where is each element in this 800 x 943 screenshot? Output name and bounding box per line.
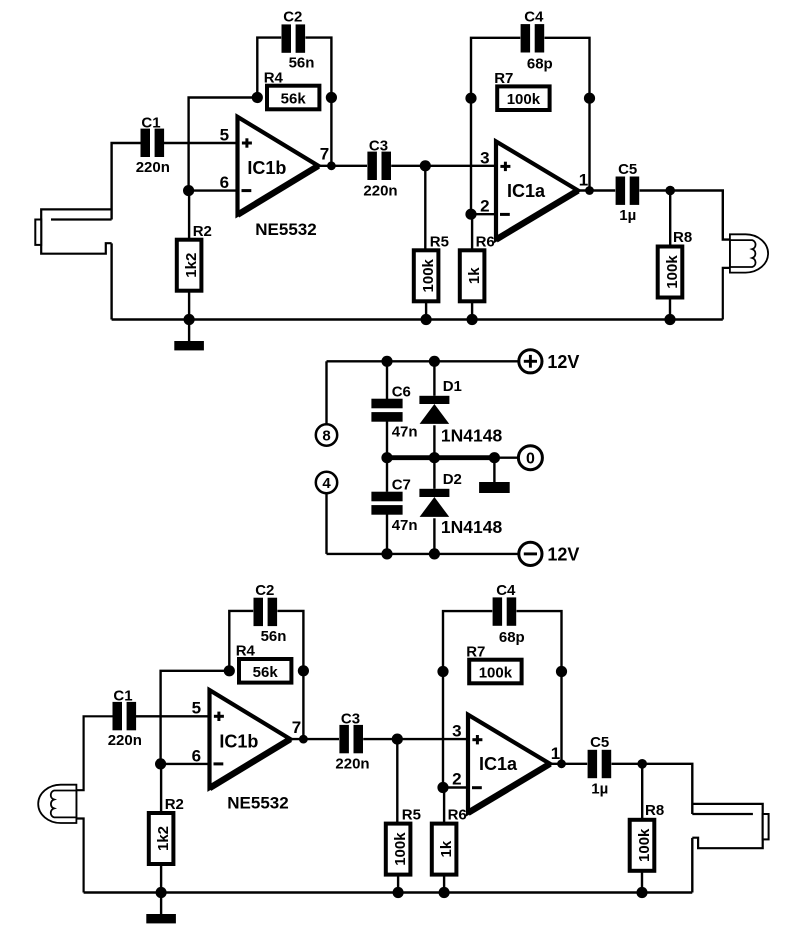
value 1N4148 of D2 [441,517,503,537]
wire R6 to ground rail (bottom) [443,875,445,893]
wire jack sleeve to ground rail (bottom) [691,838,693,893]
svg-text:7: 7 [292,718,301,737]
wire C2 loop right (bottom) [277,611,303,671]
pin 6 label IC1b (bottom) [192,746,201,765]
wire positive supply rail [327,360,519,362]
label C2 (bottom) [255,582,274,599]
ground symbol (top) [174,320,204,351]
wire ground rail (top) [112,318,723,320]
wire C5 to output node (bottom) [612,763,643,765]
svg-text:0: 0 [526,450,535,467]
wire C7 top lead [386,458,388,492]
svg-text:220n: 220n [363,182,397,199]
op-amp IC1b (top) [238,117,319,215]
label C1 (bottom) [113,688,132,705]
capacitor C4 (bottom) [493,597,517,625]
node junction R7 right (top) [584,93,595,104]
wire C2 loop left (top) [257,38,281,98]
label C3 (bottom) [341,711,360,728]
wire C4 loop right (top) [545,38,590,98]
wire C1 to IC1b pin5 (top) [164,142,238,144]
value 220n of C3 (bottom) [335,756,369,773]
node junction IC1a output (bottom) [557,759,566,768]
wire R7 right to IC1a output (top) [588,98,590,190]
label C4 (top) [524,9,544,26]
wire jack sleeve to ground rail (top) [110,243,112,319]
wire IC1a pin2 (top) [471,213,496,215]
wire C5 to output node (top) [640,189,671,191]
pin 5 label IC1b (bottom) [192,699,201,718]
wire zero volt rail (thick) [387,455,494,460]
wire IC1b pin6 (top) [189,189,238,191]
node junction ground stub [489,452,500,463]
ground symbol (bottom) [146,893,176,924]
label NE5532 (bottom) [227,793,288,812]
wire R8 to ground rail (top) [669,298,671,320]
wire R4 right to IC1b output (top) [330,98,332,166]
svg-text:R7: R7 [494,70,513,87]
svg-text:1: 1 [551,744,560,763]
wire C4 loop left (top) [471,38,520,98]
svg-text:D2: D2 [443,471,462,488]
svg-text:C2: C2 [255,582,274,599]
svg-text:1k: 1k [466,267,483,284]
terminal -12V [519,542,542,565]
wire zero rail to terminal [494,457,519,459]
wire R4 right to IC1b output (bottom) [302,671,304,739]
svg-text:C5: C5 [618,161,637,178]
pin 1 label IC1a (top) [579,171,588,190]
wire IC1b feedback vertical (top) [189,98,258,191]
svg-text:5: 5 [220,125,229,144]
wire R8 node down (bottom) [641,764,643,820]
wire C4 loop right (bottom) [517,611,562,671]
terminal 0V [518,446,542,470]
ground symbol (middle) [479,458,510,493]
capacitor C3 (bottom) [339,725,363,753]
node junction R8 bottom (top) [664,314,675,325]
wire transducer to ground rail (top) [723,268,730,320]
wire IC1b output to C3 (top) [318,165,367,167]
wire pin6 node to R2 (top) [188,191,190,240]
svg-text:R5: R5 [402,807,421,824]
svg-text:100k: 100k [392,832,409,866]
pin 2 label IC1a (bottom) [452,770,461,789]
svg-text:D1: D1 [443,378,462,395]
svg-text:100k: 100k [664,255,681,289]
resistor R4 (bottom) [239,659,291,683]
wire C2 loop left (bottom) [229,611,253,671]
input jack K (top channel) [35,209,111,253]
resistor R6 (top) [460,250,485,301]
wire IC1a pin2 (bottom) [443,786,468,788]
node junction IC1b output (bottom) [299,735,308,744]
label D1 [443,378,462,395]
label R6 (bottom) [448,807,467,824]
svg-text:3: 3 [452,722,461,741]
wire IC1a feedback vertical left (bottom) [442,672,444,788]
node junction R4 left (top) [252,92,263,103]
op-amp IC1b (bottom) [210,690,291,788]
node junction R4 right (bottom) [298,665,309,676]
svg-text:C1: C1 [113,688,132,705]
svg-text:1N4148: 1N4148 [441,517,503,537]
svg-text:C5: C5 [590,734,609,751]
value 1µ of C5 (bottom) [591,780,608,797]
value 1µ of C5 (top) [619,207,636,224]
svg-text:R6: R6 [448,807,467,824]
capacitor C4 (top) [521,24,545,52]
svg-text:R8: R8 [645,802,664,819]
wire C1 to IC1b pin5 (bottom) [136,715,210,717]
wire output node to transducer (top) [670,191,730,240]
svg-text:1µ: 1µ [591,780,608,797]
value 68p of C4 (bottom) [499,629,525,646]
svg-text:100k: 100k [507,91,541,108]
value 56n of C2 (top) [289,55,315,72]
resistor R5 (bottom) [386,824,411,875]
resistor R4 (top) [267,86,319,110]
svg-text:100k: 100k [420,258,437,292]
svg-text:4: 4 [322,475,331,492]
label D2 [443,471,462,488]
label R2 (bottom) [165,796,184,813]
wire R7 right to IC1a output (bottom) [560,672,562,764]
wire R8 to ground rail (bottom) [641,871,643,893]
capacitor C5 (top) [616,177,640,205]
capacitor C2 (bottom) [254,598,278,626]
svg-text:220n: 220n [136,159,170,176]
pin 1 label IC1a (bottom) [551,744,560,763]
wire C4 loop left (bottom) [443,611,492,671]
label C4 (bottom) [496,582,516,599]
wire R5 node down (bottom) [396,739,398,824]
resistor R7 (top) [497,86,549,110]
svg-text:5: 5 [192,699,201,718]
label C2 (top) [283,9,302,26]
wire ground rail (bottom) [84,891,693,893]
wire C6 bottom lead [386,421,388,457]
value 47n of C7 [392,517,418,534]
resistor R5 (top) [414,250,439,301]
diode D1 1N4148 [419,396,449,424]
node junction R8 top (top) [665,186,675,196]
node junction R7 right (bottom) [556,666,567,677]
value 47n of C6 [392,424,418,441]
node junction R6 bottom (bottom) [439,887,450,898]
node junction R5 bottom (bottom) [393,887,404,898]
wire IC1a feedback vertical left (top) [470,98,472,214]
diode D2 1N4148 [419,489,449,517]
pin 6 label IC1b (top) [220,173,229,192]
node junction at IC1b -input (bottom) [155,758,166,769]
node junction D1 top [429,356,440,367]
node junction R5 top (top) [420,160,431,171]
label C5 (bottom) [590,734,609,751]
svg-text:IC1a: IC1a [479,754,518,774]
node junction C7 bottom [381,548,392,559]
wire D2 top lead [433,458,435,489]
wire C6 top lead [386,361,388,399]
svg-text:R2: R2 [165,796,184,813]
wire IC1b output to C3 (bottom) [290,738,339,740]
svg-text:1k: 1k [438,840,455,857]
wire R2 to ground rail (top) [188,291,190,320]
svg-text:220n: 220n [108,732,142,749]
wire R5 node down (top) [424,166,426,251]
svg-text:56n: 56n [289,55,315,72]
capacitor C3 (top) [367,152,391,180]
svg-text:47n: 47n [392,424,418,441]
svg-text:R4: R4 [236,643,256,660]
node junction C6 top [381,356,392,367]
svg-text:1k2: 1k2 [155,826,172,851]
wire R5 to ground rail (bottom) [397,875,399,893]
wire IC1b feedback vertical (bottom) [161,671,230,764]
output transducer (top channel) [730,234,768,272]
svg-text:C2: C2 [283,9,302,26]
svg-text:1µ: 1µ [619,207,636,224]
resistor R6 (bottom) [432,824,457,875]
label R4 (bottom) [236,643,256,660]
svg-text:12V: 12V [547,352,579,372]
wire pin8 drop [325,361,327,424]
node junction R6 bottom (top) [467,314,478,325]
capacitor C6 [371,399,402,422]
node junction R5 bottom (top) [421,314,432,325]
wire jack tip to C1 (top) [112,143,141,220]
svg-text:C3: C3 [341,711,360,728]
node junction R4 left (bottom) [224,665,235,676]
svg-text:NE5532: NE5532 [255,220,316,239]
wire D2 bottom lead [433,518,435,554]
label 12V negative [547,545,579,565]
node junction R7 left (bottom) [437,666,448,677]
label C1 (top) [141,114,160,131]
wire negative supply rail [327,553,519,555]
svg-text:IC1b: IC1b [219,731,258,751]
svg-text:3: 3 [480,148,489,167]
node junction R4 right (top) [326,92,337,103]
wire R2 to ground rail (bottom) [160,864,162,893]
label NE5532 (top) [255,220,316,239]
capacitor C2 (top) [282,24,306,52]
svg-text:C3: C3 [369,137,388,154]
capacitor C7 [371,492,402,515]
svg-text:C1: C1 [141,114,160,131]
op-amp IC1a (bottom) [468,715,550,813]
pin 3 label IC1a (top) [480,148,489,167]
node junction R8 top (bottom) [637,759,647,769]
svg-text:1N4148: 1N4148 [441,426,503,446]
svg-text:56k: 56k [253,664,279,681]
wire C3 to IC1a pin3 (bottom) [363,738,468,740]
node junction R7 left (top) [465,93,476,104]
svg-text:56k: 56k [281,91,307,108]
wire pin6 node to R2 (bottom) [160,764,162,813]
label R4 (top) [264,69,284,86]
label R8 (top) [673,229,692,246]
pin 8 terminal of IC1 [316,424,337,445]
wire C7 bottom lead [386,514,388,554]
capacitor C1 (bottom) [113,702,137,730]
svg-text:1k2: 1k2 [183,253,200,278]
pin 2 label IC1a (top) [480,196,489,215]
value 56n of C2 (bottom) [261,628,287,645]
label R8 (bottom) [645,802,664,819]
pin 7 label IC1b (top) [320,145,329,164]
svg-text:C7: C7 [392,476,411,493]
node junction IC1a -input (bottom) [437,782,448,793]
svg-text:C4: C4 [496,582,516,599]
value 220n of C3 (top) [363,182,397,199]
svg-text:8: 8 [322,428,330,445]
svg-text:68p: 68p [499,629,525,646]
value 1N4148 of D1 [441,426,503,446]
pin 4 terminal of IC1 [316,472,337,493]
label R7 (top) [494,70,513,87]
node junction IC1b output (top) [327,161,336,170]
svg-text:100k: 100k [479,665,513,682]
wire transducer top lead to C1 (bottom) [76,716,112,790]
svg-text:R5: R5 [430,233,449,250]
capacitor C5 (bottom) [588,750,612,778]
node junction R2/ground rail (bottom) [156,887,167,898]
op-amp IC1a (top) [496,141,578,239]
wire pin4 drop [325,493,327,554]
wire pin2 node to R6 (bottom) [443,788,445,824]
label R6 (top) [476,233,495,250]
node junction at IC1b -input (top) [183,185,194,196]
value 220n of C1 (bottom) [108,732,142,749]
svg-text:R4: R4 [264,69,284,86]
svg-text:2: 2 [480,196,489,215]
wire C3 to IC1a pin3 (top) [391,165,496,167]
label C3 (top) [369,137,388,154]
node junction D1/D2 zero rail [429,452,440,463]
svg-text:IC1a: IC1a [507,181,546,201]
svg-text:C4: C4 [524,9,544,26]
svg-text:100k: 100k [636,828,653,862]
node junction IC1a output (top) [585,186,594,195]
wire output node to jack (bottom) [642,764,692,814]
svg-text:68p: 68p [527,56,553,73]
wire R8 node down (top) [669,191,671,247]
svg-text:7: 7 [320,145,329,164]
value 220n of C1 (top) [136,159,170,176]
wire IC1b pin6 (bottom) [161,763,210,765]
svg-text:C6: C6 [392,383,411,400]
pin 5 label IC1b (top) [220,125,229,144]
output jack K (bottom channel) [692,804,768,848]
svg-text:R2: R2 [193,223,212,240]
pin 3 label IC1a (bottom) [452,722,461,741]
wire R6 to ground rail (top) [471,301,473,319]
label R2 (top) [193,223,212,240]
svg-text:1: 1 [579,171,588,190]
wire R5 to ground rail (top) [425,301,427,319]
label R5 (top) [430,233,449,250]
resistor R2 (bottom) [149,813,174,864]
wire IC1a output to C5 (bottom) [550,763,587,765]
node junction IC1a -input (top) [465,209,476,220]
resistor R8 (bottom) [630,820,655,871]
pin 7 label IC1b (bottom) [292,718,301,737]
label R5 (bottom) [402,807,421,824]
wire IC1a output to C5 (top) [578,189,615,191]
svg-text:IC1b: IC1b [247,158,286,178]
node junction R8 bottom (bottom) [636,887,647,898]
resistor R7 (bottom) [469,660,521,684]
svg-text:56n: 56n [261,628,287,645]
node junction R2/ground rail (top) [184,314,195,325]
svg-text:R8: R8 [673,229,692,246]
label R7 (bottom) [466,643,485,660]
capacitor C1 (top) [141,129,165,157]
svg-text:6: 6 [192,746,201,765]
wire transducer bottom lead to ground rail (bottom) [76,819,83,893]
terminal +12V [519,350,542,373]
svg-text:12V: 12V [547,545,579,565]
label C5 (top) [618,161,637,178]
svg-text:6: 6 [220,173,229,192]
node junction D2 bottom [429,548,440,559]
wire D1 bottom lead [433,425,435,457]
svg-text:47n: 47n [392,517,418,534]
label C7 [392,476,411,493]
input transducer (bottom channel) [38,785,76,823]
node junction R5 top (bottom) [392,734,403,745]
wire D1 top lead [433,361,435,396]
wire C2 loop right (top) [305,38,331,98]
resistor R8 (top) [658,247,683,298]
svg-text:2: 2 [452,770,461,789]
wire pin2 node to R6 (top) [471,214,473,250]
label C6 [392,383,411,400]
svg-text:220n: 220n [335,756,369,773]
svg-text:R7: R7 [466,643,485,660]
label 12V positive [547,352,579,372]
svg-text:R6: R6 [476,233,495,250]
value 68p of C4 (top) [527,56,553,73]
resistor R2 (top) [177,240,202,291]
svg-text:NE5532: NE5532 [227,793,288,812]
node junction C6/C7 zero rail [381,452,392,463]
